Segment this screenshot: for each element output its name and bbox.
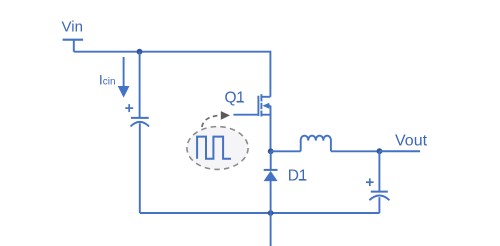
- capacitor Cout curved plate: [369, 196, 389, 201]
- svg-text:D1: D1: [288, 168, 307, 185]
- wire drain: [269, 51, 271, 97]
- wire Vout terminal: [380, 150, 421, 152]
- wire ground stub: [270, 213, 272, 246]
- wire input cap top lead: [139, 52, 141, 117]
- capacitor Cout top plate: [371, 191, 388, 193]
- wire bottom rail: [140, 212, 380, 214]
- wire Vin drop: [73, 40, 75, 52]
- transistor Q1 channel segments: [260, 94, 262, 116]
- wire source to switch node: [270, 106, 272, 152]
- wire switch node to diode: [270, 151, 272, 169]
- polarity plus Cin: [125, 104, 133, 112]
- diode D1 cathode bar: [264, 169, 278, 171]
- wire switch node to inductor: [271, 150, 301, 152]
- svg-text:Vin: Vin: [62, 18, 83, 35]
- PWM square wave: [197, 137, 231, 159]
- wire output cap bottom lead: [378, 197, 380, 213]
- inductor L: [301, 136, 331, 152]
- node bottom junction: [268, 210, 274, 216]
- label Q1: [225, 90, 245, 107]
- svg-text:Q1: Q1: [225, 90, 245, 107]
- wire gate: [233, 114, 257, 116]
- diode D1 triangle: [264, 171, 278, 181]
- transistor Q1 drain stub: [261, 96, 270, 98]
- wire diode anode to bottom rail: [270, 181, 272, 213]
- gate drive arrowhead: [221, 111, 230, 120]
- label D1: [288, 168, 307, 185]
- transistor Q1 body arrow: [262, 103, 270, 109]
- terminal Vin bar: [63, 39, 84, 41]
- node output junction: [377, 148, 383, 154]
- gate drive dashed arrow curve: [202, 116, 219, 128]
- wire input cap bottom lead: [139, 123, 141, 213]
- svg-text:Vout: Vout: [395, 132, 428, 149]
- wire inductor to output node: [331, 150, 380, 152]
- transistor Q1 gate bar: [257, 96, 259, 116]
- capacitor Cin top plate: [131, 117, 149, 119]
- node switch junction: [268, 148, 274, 154]
- transistor Q1 source stub: [261, 114, 270, 116]
- capacitor Cin curved plate: [131, 122, 150, 127]
- node input junction: [137, 49, 143, 55]
- polarity plus Cout: [366, 178, 374, 186]
- PWM source ellipse: [187, 127, 248, 170]
- current arrow Icin: [118, 57, 130, 98]
- wire output cap top lead: [378, 151, 380, 191]
- wire top rail: [74, 51, 271, 53]
